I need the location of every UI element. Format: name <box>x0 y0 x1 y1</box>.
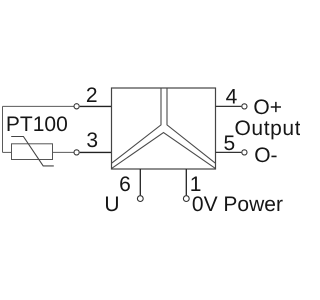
svg-text:Output: Output <box>235 117 301 140</box>
terminal 3 circle <box>74 150 79 155</box>
svg-text:4: 4 <box>226 86 238 109</box>
isolation divider left branch <box>112 88 161 163</box>
thermistor RT (PT100 sensor) body <box>12 144 53 160</box>
svg-text:6: 6 <box>119 173 131 196</box>
svg-text:0V Power: 0V Power <box>192 193 283 216</box>
terminal 5 circle <box>242 150 247 155</box>
terminal 6 circle <box>137 196 143 202</box>
isolation divider right branch <box>167 88 215 163</box>
wire: left lead into thermistor <box>3 151 12 153</box>
wire: transmitter to terminal 1 <box>185 169 187 195</box>
svg-text:U: U <box>104 193 119 216</box>
wire: transmitter to terminal 4 <box>216 105 242 107</box>
terminal 4 circle <box>242 104 247 109</box>
svg-text:O-: O- <box>254 144 277 167</box>
thermistor strike (non-linearity) mark <box>11 137 54 166</box>
wire: thermistor to terminal 3 <box>53 151 74 153</box>
svg-text:3: 3 <box>86 129 98 152</box>
wire: transmitter to terminal 5 <box>216 151 242 153</box>
svg-text:2: 2 <box>86 84 98 107</box>
isolation divider inner vee <box>112 133 215 169</box>
terminal 2 circle <box>74 104 79 109</box>
transmitter U1 body <box>112 88 216 169</box>
wire: terminal 2 to transmitter input <box>80 105 112 107</box>
terminal 1 circle <box>183 196 189 202</box>
wire: terminal 3 to transmitter input <box>80 151 112 153</box>
wire: sensor top lead to terminal 2 <box>3 105 74 107</box>
wire: sensor left vertical lead <box>2 106 4 152</box>
svg-text:O+: O+ <box>253 96 282 119</box>
wire: transmitter to terminal 6 <box>139 169 141 195</box>
svg-text:PT100: PT100 <box>6 113 68 136</box>
svg-text:5: 5 <box>224 132 236 155</box>
